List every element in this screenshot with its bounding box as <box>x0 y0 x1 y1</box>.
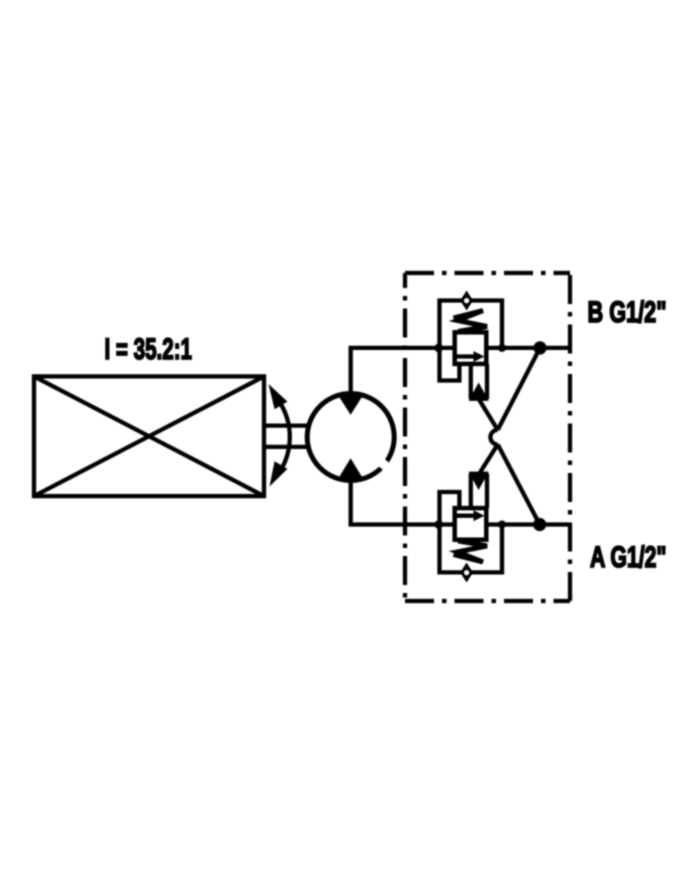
relief valve RV1 body square <box>455 332 487 364</box>
junction dot A-pilot-right <box>498 521 506 529</box>
wire: A line (motor to port A) <box>349 522 571 526</box>
svg-text:A G1/2": A G1/2" <box>590 541 667 574</box>
relief valve RV1 spring <box>454 311 488 332</box>
relief valve RV2 spring <box>454 541 488 562</box>
crossover line center to A <box>498 445 540 525</box>
relief valve RV1 drain line <box>440 348 460 381</box>
crossover line center to RV2 inlet <box>479 445 498 475</box>
relief valve RV2 drain line <box>440 492 460 525</box>
bidirectional rotation arrow <box>269 384 290 487</box>
crossing hop arc <box>490 430 497 445</box>
wire: motor bottom port to A line <box>349 480 353 525</box>
hydraulic motor M1 (circle) <box>307 394 394 481</box>
junction dot B-pilot-left <box>434 344 443 353</box>
relief valve RV2 body square <box>455 508 487 540</box>
relief valve RV1 flow arrow <box>457 354 475 358</box>
svg-text:I = 35.2:1: I = 35.2:1 <box>105 333 193 366</box>
motor triangle top (flow in) <box>338 394 364 415</box>
junction dot B-pilot-right <box>498 344 506 352</box>
relief valve RV1 outlet channel <box>471 364 487 399</box>
relief valve RV1 pilot loop (top) <box>440 301 503 348</box>
shaft (gearbox to motor) <box>264 426 308 447</box>
relief valve RV2 vent diamond <box>461 564 472 581</box>
valve block enclosure top edge (dash-dot) <box>405 271 570 275</box>
svg-text:B G1/2": B G1/2" <box>588 296 667 329</box>
junction dot A-pilot-left <box>434 520 443 529</box>
node A junction (large dot) <box>533 518 546 531</box>
motor circle outline gap <box>376 457 389 470</box>
motor triangle bottom (flow in) <box>338 458 364 480</box>
node B junction (large dot) <box>533 341 546 354</box>
relief valve RV2 inlet check triangle (down) <box>469 472 489 490</box>
crossover line RV1 outlet to center <box>479 399 498 430</box>
gearbox G1 (rectangle with X cross) <box>34 376 264 496</box>
crossover line B to center <box>498 348 540 430</box>
valve block enclosure left edge (dash-dot) <box>403 273 407 601</box>
relief valve RV2 pilot loop (bottom) <box>440 525 503 573</box>
valve block enclosure bottom edge (dash-dot) <box>405 599 570 603</box>
relief valve RV2 flow arrow <box>457 514 475 518</box>
wire: B line (motor to port B) <box>349 346 571 350</box>
relief valve RV1 vent diamond <box>461 292 472 309</box>
valve block enclosure right edge (dash-dot) <box>568 273 572 601</box>
relief valve RV2 inlet channel <box>471 474 487 509</box>
relief valve RV1 outlet check triangle (up) <box>469 383 489 401</box>
wire: motor top port to B line <box>349 348 353 394</box>
